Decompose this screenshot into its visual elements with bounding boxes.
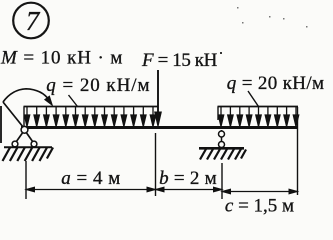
moment M curved arrow xyxy=(3,89,50,128)
svg-text:q = 20 кН/м: q = 20 кН/м xyxy=(46,75,150,96)
roller circle bottom xyxy=(219,142,225,148)
left support ground line xyxy=(4,146,52,148)
roller circle top xyxy=(219,131,225,137)
roller support link xyxy=(221,130,223,145)
left distributed load top line xyxy=(24,106,158,108)
right load left edge xyxy=(217,107,219,121)
task number circle 7 xyxy=(13,3,49,39)
scan specks xyxy=(220,7,308,54)
svg-text:7: 7 xyxy=(26,6,41,36)
pin base circles xyxy=(12,141,18,147)
svg-text:M = 10 кН · м: M = 10 кН · м xyxy=(0,48,123,69)
dimension line b xyxy=(156,187,223,192)
pin circle xyxy=(21,126,28,133)
svg-text:c = 1,5 м: c = 1,5 м xyxy=(225,196,294,217)
right end vertical / extension line xyxy=(297,107,299,195)
leader line for left q label xyxy=(69,95,78,107)
svg-text:a = 4 м: a = 4 м xyxy=(61,168,121,189)
left support hatching xyxy=(3,148,54,162)
left pin support triangle xyxy=(15,130,34,144)
svg-text:q = 20 кН/м: q = 20 кН/м xyxy=(227,73,325,94)
dimension line a xyxy=(26,187,156,192)
roller hatching xyxy=(200,149,246,160)
right distributed load arrows xyxy=(218,107,298,126)
svg-text:F = 15 кН: F = 15 кН xyxy=(141,50,218,71)
scan artifact: left edge line xyxy=(0,106,2,143)
extension line below left support xyxy=(25,161,27,199)
extension line below F xyxy=(155,133,157,196)
beam xyxy=(21,126,298,129)
svg-text:b = 2 м: b = 2 м xyxy=(159,168,217,189)
right distributed load top line xyxy=(218,106,299,108)
leader line for right q label xyxy=(248,91,259,107)
left distributed load arrows xyxy=(24,107,155,126)
dimension line c xyxy=(222,189,298,194)
force F arrow xyxy=(155,70,162,127)
left distributed load left edge xyxy=(23,107,25,127)
extension line below roller xyxy=(221,163,223,199)
roller ground line xyxy=(199,147,244,150)
